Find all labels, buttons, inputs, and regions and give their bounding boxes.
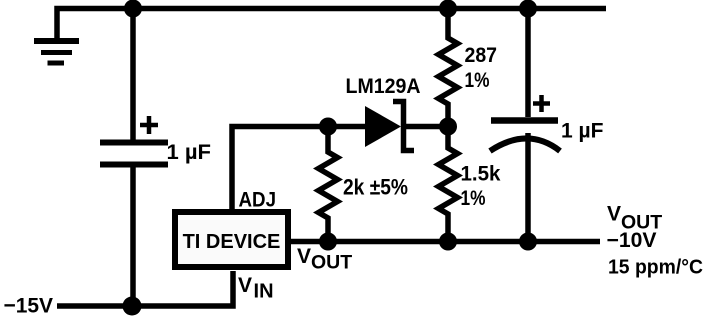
capacitor C1 wire lower [130, 167, 136, 306]
op-amp U1 TI DEVICE box [175, 212, 288, 267]
ground [34, 41, 79, 63]
node bottom-cap1 junction [123, 297, 142, 316]
node rail-cap2 junction [519, 233, 537, 251]
node diode anode junction [319, 118, 337, 136]
diode D1 triangle [365, 106, 401, 147]
node top-287 junction [439, 0, 457, 18]
capacitor C2 wire upper [525, 9, 531, 118]
svg-text:LM129A: LM129A [346, 74, 421, 98]
svg-text:ADJ: ADJ [239, 189, 277, 212]
node diode cathode junction [439, 118, 457, 136]
wire ADJ pin [232, 127, 365, 211]
node top-cap junction [124, 0, 142, 18]
capacitor C2 wire lower [525, 133, 531, 242]
svg-text:1.5k: 1.5k [461, 162, 501, 186]
resistor R1 287 [439, 9, 458, 127]
svg-text:2k ±5%: 2k ±5% [343, 175, 408, 200]
capacitor C1 plates [100, 143, 168, 165]
svg-text:287: 287 [465, 44, 498, 67]
svg-text:1 µF: 1 µF [561, 120, 604, 143]
svg-text:15 ppm/°C: 15 ppm/°C [608, 256, 703, 279]
wire top rail with ground drop [57, 9, 606, 41]
node top-cap2 junction [519, 0, 537, 18]
capacitor C1 wire upper [130, 9, 136, 141]
capacitor C2 top plate [491, 117, 558, 124]
svg-text:−15V: −15V [4, 294, 54, 318]
svg-text:1%: 1% [465, 69, 490, 92]
resistor R3 1.5k [439, 127, 458, 242]
resistor R2 2k [319, 127, 338, 242]
diode D1 cathode wire [404, 124, 448, 130]
plus sign C1 [140, 116, 158, 134]
wire bottom -15V to Vin [57, 271, 233, 306]
svg-text:1 µF: 1 µF [167, 141, 212, 164]
diode D1 zener bar [393, 102, 414, 151]
svg-text:VIN: VIN [238, 274, 274, 303]
svg-text:1%: 1% [461, 187, 486, 210]
svg-text:TI DEVICE: TI DEVICE [183, 231, 281, 253]
node rail-1.5k junction [439, 233, 457, 251]
wire output rail [291, 239, 600, 245]
node rail-2k junction [319, 233, 337, 251]
svg-text:−10V: −10V [607, 229, 657, 252]
plus sign C2 [533, 95, 550, 112]
capacitor C2 curved plate [490, 139, 560, 152]
